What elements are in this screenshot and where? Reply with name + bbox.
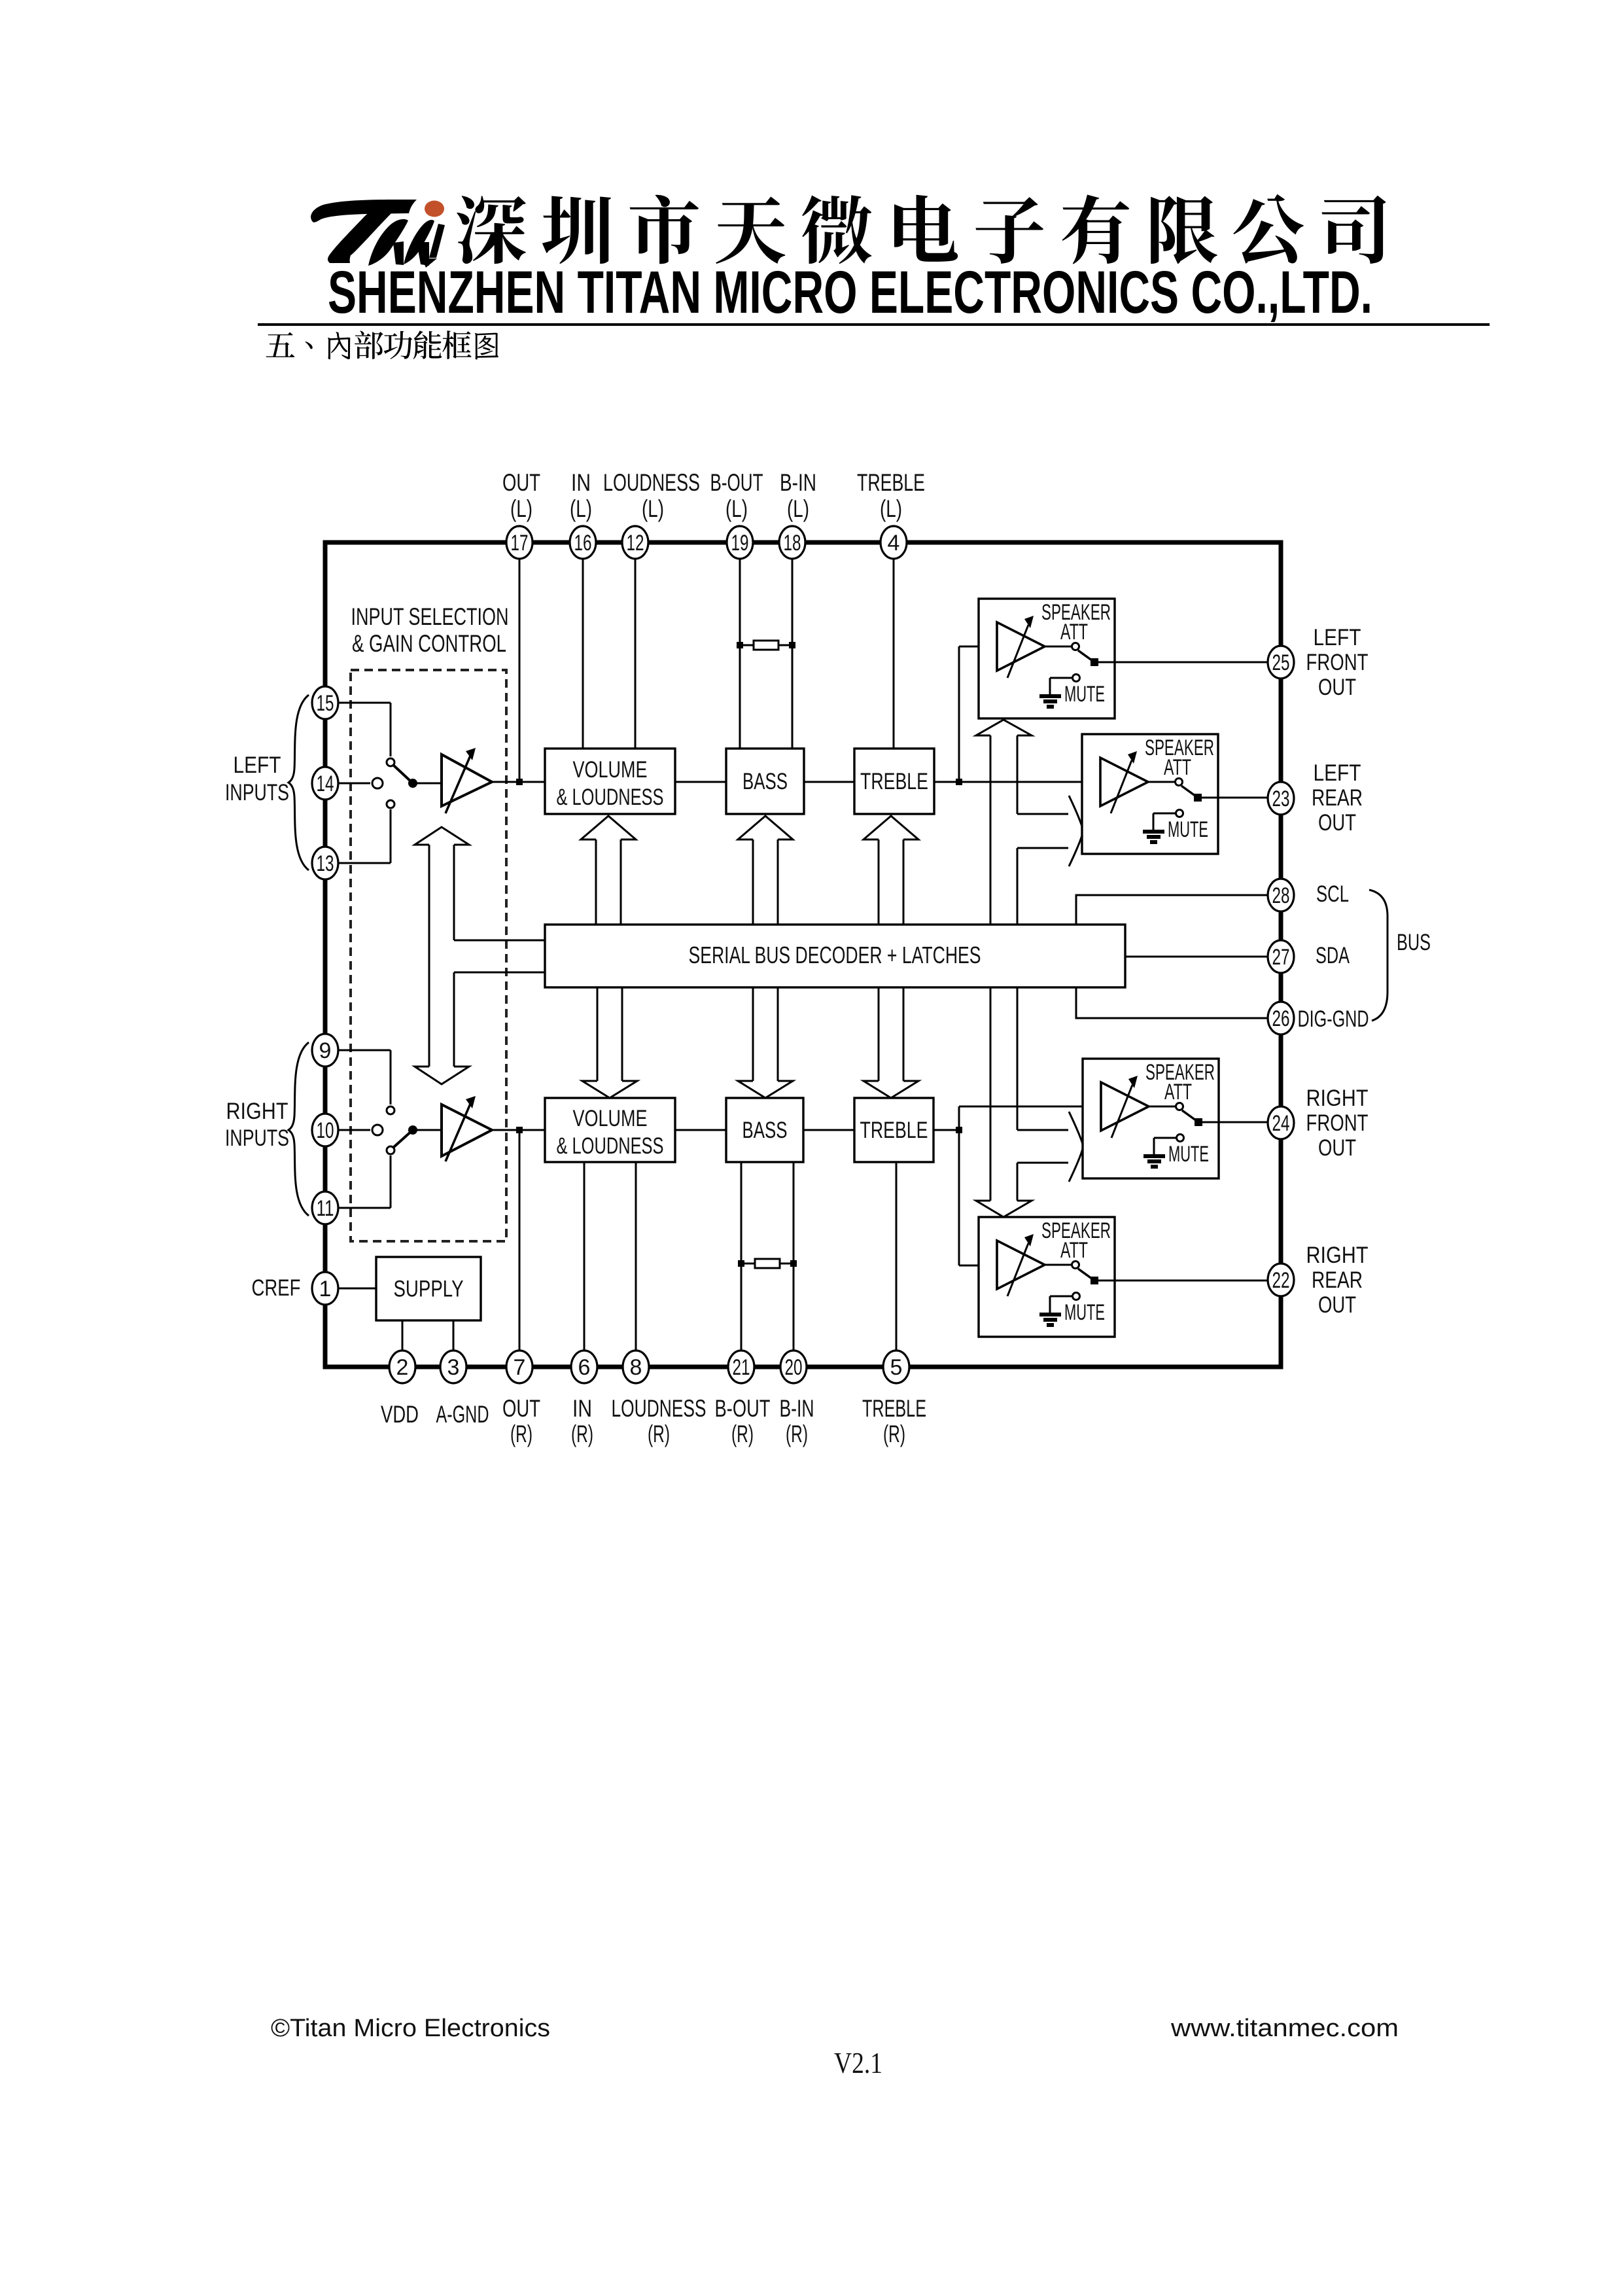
wire BASS(R) to TREBLE(R): [804, 1129, 854, 1131]
svg-text:25: 25: [1272, 650, 1290, 675]
wire pin18 B-IN(L) to BASS(L): [792, 542, 794, 749]
wire SPEAKER ATT 4 to pin22: [1115, 1280, 1281, 1282]
svg-text:TREBLE: TREBLE: [857, 469, 925, 496]
control arrow to BASS(L): [738, 816, 793, 839]
svg-text:RIGHT: RIGHT: [226, 1099, 288, 1124]
svg-text:VDD: VDD: [381, 1401, 419, 1428]
block BASS (L): [726, 749, 804, 814]
control arrow to TREBLE(R): [864, 1081, 918, 1098]
block TREBLE (R): [854, 1098, 934, 1162]
svg-text:SERIAL BUS DECODER + LATCHES: SERIAL BUS DECODER + LATCHES: [689, 942, 981, 968]
svg-text:12: 12: [627, 531, 644, 556]
junction dot amp R output / pin7: [516, 1127, 523, 1133]
selector switch L contacts: [372, 758, 394, 808]
svg-text:IN: IN: [572, 1395, 592, 1422]
svg-text:4: 4: [888, 531, 900, 556]
wire TREBLE(R) out to junction: [934, 1129, 959, 1131]
svg-text:26: 26: [1272, 1006, 1290, 1031]
svg-text:VOLUME: VOLUME: [573, 757, 648, 783]
svg-text:CREF: CREF: [252, 1275, 301, 1301]
wire pin26 DIG-GND to decoder: [1076, 987, 1281, 1018]
svg-text:19: 19: [731, 531, 749, 556]
wire amp L output to VOLUME(L): [492, 781, 545, 783]
svg-text:©Titan Micro Electronics: ©Titan Micro Electronics: [271, 2015, 550, 2042]
pin 1 (left): [312, 1272, 338, 1305]
svg-text:18: 18: [784, 531, 801, 556]
dashed box INPUT SELECTION & GAIN CONTROL: [351, 670, 506, 1241]
svg-text:(R): (R): [883, 1421, 905, 1447]
SPEAKER ATT 1 (left front): [979, 599, 1115, 718]
company name (Chinese): [457, 196, 526, 264]
brace left inputs: [288, 695, 309, 870]
pin 18 (top): [779, 526, 805, 559]
svg-text:INPUTS: INPUTS: [225, 1125, 289, 1151]
svg-text:FRONT: FRONT: [1306, 650, 1369, 675]
selector switch R contacts: [372, 1106, 394, 1154]
pin 26 (right): [1268, 1002, 1294, 1034]
SPEAKER ATT 3 (right front): [1083, 1059, 1219, 1178]
wire pin14 to selector switch L: [338, 783, 370, 785]
wire pin12 LOUDNESS(L) to VOLUME(L): [635, 542, 637, 749]
pin 25 (right): [1268, 646, 1294, 679]
svg-text:SDA: SDA: [1316, 943, 1350, 968]
svg-text:23: 23: [1272, 786, 1290, 811]
wire pin19 B-OUT(L) to BASS(L): [739, 542, 741, 749]
pin 9 (left): [312, 1034, 338, 1067]
wire VOLUME(L) to BASS(L): [675, 781, 726, 783]
pin 14 (left): [312, 767, 338, 800]
svg-text:LEFT: LEFT: [1314, 625, 1361, 650]
junction dot amp L output / pin17: [516, 779, 523, 785]
control arrow to BASS(R): [738, 1081, 793, 1098]
svg-text:REAR: REAR: [1312, 785, 1363, 811]
pin 13 (left): [312, 847, 338, 879]
wire pin28 SCL to decoder: [1076, 895, 1281, 925]
control channel decoder to input-sel arrow: [454, 940, 545, 972]
pin 8 (bottom): [623, 1351, 649, 1383]
svg-text:6: 6: [578, 1355, 591, 1380]
svg-text:9: 9: [319, 1038, 332, 1063]
svg-text:OUT: OUT: [1318, 1135, 1356, 1161]
svg-text:B-OUT: B-OUT: [715, 1395, 771, 1422]
block SERIAL BUS DECODER + LATCHES: [545, 925, 1125, 987]
control arrow to VOLUME(R): [582, 1081, 637, 1098]
SPEAKER ATT 4 (right rear): [979, 1217, 1115, 1337]
wire pin27 SDA to decoder: [1125, 956, 1281, 958]
svg-text:B-OUT: B-OUT: [710, 469, 763, 496]
svg-text:SHENZHEN TITAN MICRO ELECTRONI: SHENZHEN TITAN MICRO ELECTRONICS CO.,LTD…: [328, 259, 1372, 326]
svg-text:LOUDNESS: LOUDNESS: [612, 1395, 707, 1422]
gain-control double arrow (input selection): [415, 827, 469, 1084]
svg-text:www.titanmec.com: www.titanmec.com: [1170, 2015, 1399, 2042]
svg-text:(R): (R): [786, 1421, 808, 1447]
brace right inputs: [288, 1042, 309, 1216]
svg-text:BUS: BUS: [1397, 930, 1431, 955]
svg-text:28: 28: [1272, 883, 1290, 908]
svg-text:LOUDNESS: LOUDNESS: [603, 469, 700, 496]
svg-text:(R): (R): [510, 1421, 532, 1447]
svg-text:SCL: SCL: [1316, 881, 1349, 907]
pin 11 (left): [312, 1192, 338, 1224]
pin 17 (top): [506, 526, 532, 559]
svg-text:BASS: BASS: [742, 1118, 788, 1143]
svg-text:V2.1: V2.1: [834, 2046, 882, 2079]
wire pin6 IN(R) to VOLUME(R): [584, 1162, 585, 1367]
svg-text:(L): (L): [725, 495, 748, 522]
pin 4 (top): [881, 526, 907, 559]
wire pin7 OUT(R) to audio line: [519, 1130, 521, 1367]
svg-text:BASS: BASS: [742, 769, 788, 794]
svg-text:RIGHT: RIGHT: [1306, 1243, 1369, 1268]
pin 20 (bottom): [780, 1351, 807, 1383]
svg-text:TREBLE: TREBLE: [862, 1395, 926, 1422]
svg-text:5: 5: [890, 1355, 903, 1380]
wire TREBLE(L) out to speaker amps: [934, 781, 1100, 783]
IC block outline: [325, 542, 1281, 1367]
svg-text:SUPPLY: SUPPLY: [394, 1277, 464, 1302]
wire pin9 to selector switch R: [338, 1050, 391, 1051]
svg-text:(L): (L): [880, 495, 902, 522]
wire SUPPLY to pin2 VDD: [402, 1320, 404, 1367]
control arrow to SPEAKER ATT 1 and 2: [976, 720, 1083, 925]
svg-text:22: 22: [1272, 1268, 1290, 1293]
company logo orange dot: [425, 201, 444, 217]
wire BASS(L) to TREBLE(L): [804, 781, 854, 783]
pin 23 (right): [1268, 782, 1294, 815]
wire pin4 TREBLE(L) to TREBLE(L) block: [893, 542, 895, 749]
pin 6 (bottom): [571, 1351, 597, 1383]
svg-text:21: 21: [733, 1355, 750, 1380]
wire amp R output to VOLUME(R): [492, 1129, 545, 1131]
pin 27 (right): [1268, 940, 1294, 973]
wire pin11 to selector switch R: [338, 1207, 391, 1209]
svg-text:27: 27: [1272, 945, 1290, 970]
pin 2 (bottom): [389, 1351, 415, 1383]
wire pin15 to selector switch L: [338, 702, 391, 704]
BUS bracket: [1369, 890, 1387, 1021]
resistor between B-OUT(L) and B-IN(L): [737, 641, 795, 650]
svg-text:(L): (L): [787, 495, 809, 522]
wire pin17 OUT(L) to audio line: [519, 542, 521, 782]
svg-text:14: 14: [317, 771, 334, 796]
svg-text:OUT: OUT: [502, 1395, 540, 1422]
pin 10 (left): [312, 1114, 338, 1146]
riser junction to SPEAKER ATT 4: [958, 1130, 960, 1265]
wire pin16 IN(L) to VOLUME(L): [582, 542, 584, 749]
svg-text:INPUT SELECTION: INPUT SELECTION: [351, 603, 509, 630]
control arrow to VOLUME(L): [581, 816, 636, 839]
svg-text:& GAIN CONTROL: & GAIN CONTROL: [352, 630, 506, 657]
block TREBLE (L): [854, 749, 934, 814]
company logo Tmi mark: [311, 200, 445, 268]
riser junction to SPEAKER ATT 3: [958, 1106, 960, 1130]
svg-text:20: 20: [785, 1355, 803, 1380]
block VOLUME & LOUDNESS (L): [545, 749, 675, 814]
gain amplifier L: [442, 748, 492, 813]
pin 19 (top): [727, 526, 753, 559]
svg-text:VOLUME: VOLUME: [573, 1106, 648, 1131]
svg-text:IN: IN: [571, 469, 591, 496]
svg-text:A-GND: A-GND: [436, 1401, 489, 1428]
wire SPEAKER ATT 1 to pin25: [1115, 662, 1281, 663]
svg-text:11: 11: [317, 1196, 334, 1221]
pin 7 (bottom): [506, 1351, 532, 1383]
svg-text:(L): (L): [570, 495, 592, 522]
svg-text:10: 10: [317, 1118, 334, 1143]
block BASS (R): [726, 1098, 803, 1162]
svg-text:15: 15: [317, 691, 334, 716]
wire VOLUME(R) to BASS(R): [675, 1129, 726, 1131]
svg-text:(L): (L): [510, 495, 532, 522]
svg-text:& LOUDNESS: & LOUDNESS: [557, 785, 664, 810]
svg-text:(R): (R): [731, 1421, 754, 1447]
control arrow to TREBLE(L): [864, 816, 918, 839]
svg-text:OUT: OUT: [1318, 675, 1356, 700]
wire SPEAKER ATT 3 to pin24: [1219, 1122, 1281, 1123]
svg-text:OUT: OUT: [1318, 810, 1356, 836]
pin 15 (left): [312, 686, 338, 719]
svg-text:REAR: REAR: [1312, 1267, 1363, 1293]
riser junction to SPEAKER ATT 1: [958, 646, 960, 782]
pin 22 (right): [1268, 1263, 1294, 1296]
header rule: [258, 323, 1490, 326]
svg-text:RIGHT: RIGHT: [1306, 1086, 1369, 1111]
svg-text:1: 1: [319, 1277, 332, 1301]
wire pin8 LOUDNESS(R) to VOLUME(R): [635, 1162, 637, 1367]
resistor between B-OUT(R) and B-IN(R): [738, 1259, 797, 1268]
SPEAKER ATT 2 (left rear): [1082, 734, 1218, 854]
svg-text:2: 2: [396, 1355, 409, 1380]
pin 5 (bottom): [883, 1351, 909, 1383]
svg-text:TREBLE: TREBLE: [860, 769, 928, 794]
svg-text:7: 7: [514, 1355, 526, 1380]
svg-text:B-IN: B-IN: [780, 1395, 814, 1422]
svg-text:OUT: OUT: [1318, 1292, 1356, 1318]
wire pin5 TREBLE(R) to TREBLE(R) block: [896, 1162, 898, 1367]
section heading (Chinese): [266, 332, 295, 357]
junction dot TREBLE(L) output: [956, 779, 962, 785]
svg-text:(L): (L): [642, 495, 664, 522]
gain amplifier R: [442, 1096, 492, 1161]
svg-text:3: 3: [447, 1355, 460, 1380]
wire pin10 to selector switch R: [338, 1129, 370, 1131]
svg-text:(R): (R): [648, 1421, 670, 1447]
wire pin20 B-IN(R) to BASS(R): [793, 1162, 795, 1367]
svg-text:& LOUDNESS: & LOUDNESS: [557, 1133, 664, 1159]
pin 21 (bottom): [728, 1351, 754, 1383]
svg-text:8: 8: [630, 1355, 642, 1380]
svg-text:(R): (R): [571, 1421, 593, 1447]
svg-text:OUT: OUT: [502, 469, 540, 496]
svg-text:INPUTS: INPUTS: [225, 780, 289, 805]
pin 24 (right): [1268, 1106, 1294, 1139]
wire pin13 to selector switch L: [338, 862, 391, 864]
pin 3 (bottom): [440, 1351, 466, 1383]
svg-text:FRONT: FRONT: [1306, 1110, 1369, 1136]
svg-text:DIG-GND: DIG-GND: [1298, 1006, 1369, 1032]
junction dot TREBLE(R) output: [956, 1127, 962, 1133]
block SUPPLY: [376, 1257, 481, 1320]
svg-text:B-IN: B-IN: [780, 469, 816, 496]
wire pin1 CREF to SUPPLY: [325, 1288, 376, 1290]
svg-text:17: 17: [511, 531, 529, 556]
selector switch R lever and pole: [394, 1125, 442, 1147]
svg-text:TREBLE: TREBLE: [860, 1118, 928, 1143]
selector switch L lever and pole: [394, 766, 442, 788]
pin 16 (top): [570, 526, 596, 559]
svg-text:LEFT: LEFT: [234, 752, 281, 778]
wire SUPPLY to pin3 A-GND: [453, 1320, 455, 1367]
pin 12 (top): [622, 526, 648, 559]
wire SPEAKER ATT 2 to pin23: [1218, 797, 1281, 799]
svg-text:16: 16: [574, 531, 592, 556]
svg-text:24: 24: [1272, 1111, 1290, 1136]
pin 28 (right): [1268, 879, 1294, 911]
control arrow to SPEAKER ATT 3 and 4: [976, 987, 1083, 1217]
svg-text:13: 13: [317, 851, 334, 876]
block VOLUME & LOUDNESS (R): [545, 1098, 675, 1162]
svg-text:LEFT: LEFT: [1314, 760, 1361, 786]
wire pin21 B-OUT(R) to BASS(R): [741, 1162, 742, 1367]
